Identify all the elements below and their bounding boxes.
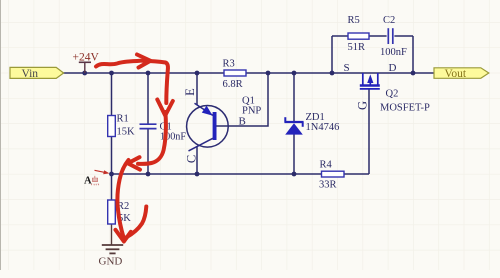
svg-text:GND: GND bbox=[99, 256, 123, 268]
node: ZD1 top junction bbox=[292, 71, 297, 76]
port Vin bbox=[10, 67, 64, 80]
label A point bbox=[84, 176, 99, 187]
pin label E bbox=[183, 88, 197, 96]
node: C1 top junction bbox=[146, 71, 151, 76]
wire: R1 branch lower bbox=[111, 137, 113, 175]
ground GND bbox=[99, 245, 124, 268]
wire: snubber loop top left segment bbox=[332, 35, 348, 37]
annotation: red arrowhead pointing down at GND bbox=[116, 230, 131, 242]
zener diode ZD1 bbox=[285, 112, 340, 135]
svg-text:15K: 15K bbox=[117, 127, 136, 138]
wire: ZD1 upper lead bbox=[293, 73, 295, 122]
svg-text:R5: R5 bbox=[348, 15, 360, 26]
wire: bottom rail right of R4 bbox=[344, 173, 369, 175]
wire: R2 upper lead bbox=[111, 174, 113, 200]
transistor Q1 bbox=[187, 103, 229, 151]
node: loop left junction (S) bbox=[330, 71, 335, 76]
svg-text:Vout: Vout bbox=[445, 68, 467, 80]
svg-text:B: B bbox=[239, 116, 246, 128]
svg-text:C2: C2 bbox=[383, 15, 395, 26]
label Q2 MOSFET-P bbox=[380, 89, 430, 114]
wire: Q2 gate riser bbox=[368, 89, 370, 175]
resistor R4 bbox=[319, 160, 344, 191]
svg-text:6.8R: 6.8R bbox=[223, 79, 243, 90]
node: collector bottom junction bbox=[195, 172, 200, 177]
wire: R1 branch upper bbox=[111, 73, 113, 116]
wire: Q1 base to top rail bbox=[217, 73, 269, 126]
arrow: small red pointer to node A bbox=[95, 170, 110, 174]
node: R1 top junction bbox=[109, 71, 114, 76]
wire: R2 to ground lead bbox=[111, 224, 113, 245]
node: +24V junction bbox=[82, 71, 87, 76]
resistor R3 bbox=[223, 59, 247, 91]
node: emitter junction bbox=[195, 71, 200, 76]
resistor R5 bbox=[348, 15, 370, 53]
wire: Q1 emitter lead bbox=[196, 73, 198, 105]
pin label S bbox=[344, 62, 350, 74]
svg-text:R1: R1 bbox=[117, 114, 129, 125]
wire: snubber loop top right segment bbox=[394, 35, 413, 37]
annotation: red arrowhead pointing left bbox=[128, 157, 140, 169]
node: A point junction bbox=[109, 172, 114, 177]
svg-text:E: E bbox=[183, 88, 197, 96]
node: loop right junction (D) bbox=[411, 71, 416, 76]
node: ZD1 bottom junction bbox=[292, 172, 297, 177]
svg-text:Q2: Q2 bbox=[386, 89, 399, 100]
svg-text:PNP: PNP bbox=[242, 106, 261, 117]
wire: main horizontal rail left of R3 bbox=[64, 72, 225, 74]
wire: main horizontal rail right of R3 bbox=[246, 72, 434, 74]
svg-text:Vin: Vin bbox=[22, 68, 39, 80]
svg-text:D: D bbox=[389, 62, 397, 74]
node: C1 bottom junction bbox=[146, 172, 151, 177]
svg-text:1N4746: 1N4746 bbox=[306, 122, 340, 133]
svg-text:S: S bbox=[344, 62, 350, 74]
wire: snubber loop left side bbox=[331, 36, 333, 73]
pin label C bbox=[185, 155, 199, 163]
node: base riser junction bbox=[266, 71, 271, 76]
resistor R2 bbox=[108, 200, 132, 224]
svg-text:G: G bbox=[356, 101, 370, 110]
capacitor C2 bbox=[380, 15, 407, 58]
svg-text:C: C bbox=[185, 155, 199, 163]
wire: C1 branch upper bbox=[147, 73, 149, 124]
pin label D bbox=[389, 62, 397, 74]
svg-text:R3: R3 bbox=[223, 59, 235, 70]
wire: ZD1 lower lead bbox=[293, 135, 295, 175]
resistor R1 bbox=[108, 114, 135, 138]
wire: snubber loop top middle segment bbox=[369, 35, 387, 37]
pin label G bbox=[356, 101, 370, 110]
svg-text:A: A bbox=[84, 176, 92, 187]
wire: Q1 collector lead bbox=[196, 146, 198, 174]
svg-text:R4: R4 bbox=[320, 160, 333, 171]
annotation: red marker stroke top (current path arrow) bbox=[96, 61, 168, 239]
svg-text:MOSFET-P: MOSFET-P bbox=[380, 103, 430, 114]
capacitor C1 bbox=[140, 122, 187, 143]
power +24V bbox=[73, 52, 100, 74]
annotation: red arrowhead pointing right bbox=[137, 55, 151, 68]
label Q1 PNP bbox=[242, 96, 261, 117]
wire: C1 branch lower bbox=[147, 129, 149, 174]
port Vout bbox=[434, 68, 489, 80]
svg-text:100nF: 100nF bbox=[380, 47, 407, 58]
wire: snubber loop right side bbox=[412, 36, 414, 73]
MOSFET Q2 bbox=[360, 73, 380, 89]
pin label B bbox=[239, 116, 246, 128]
svg-text:33R: 33R bbox=[319, 180, 337, 191]
annotation: red arrowhead pointing down bbox=[157, 100, 173, 116]
svg-text:51R: 51R bbox=[348, 42, 366, 53]
wire: bottom rail left of R4 bbox=[112, 173, 322, 175]
